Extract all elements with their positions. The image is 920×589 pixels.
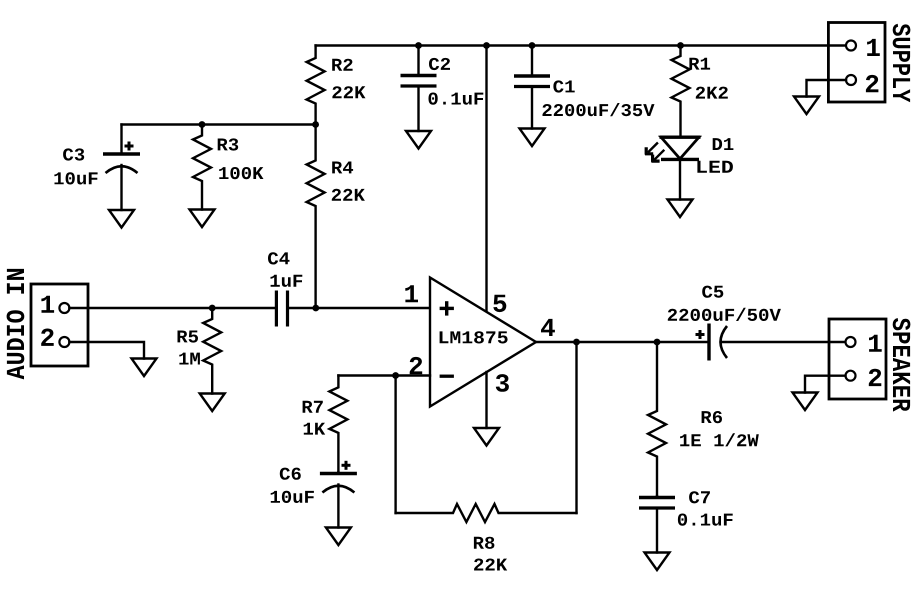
wire pin 2 net <box>338 374 430 376</box>
capacitor C7 <box>656 496 658 498</box>
label R7 <box>303 401 323 413</box>
ground C7 <box>645 553 670 571</box>
wire feedback up to output <box>575 342 577 513</box>
label C4 <box>268 252 290 264</box>
junction pin5 wire <box>483 42 490 49</box>
junction R2/R4/bias node <box>312 121 319 128</box>
junction output/R6 <box>654 339 661 346</box>
wire pin 3 to ground <box>485 372 487 428</box>
junction feedback node <box>392 372 399 379</box>
junction output/feedback <box>573 339 580 346</box>
pin number AUDIO 2 <box>41 329 54 346</box>
wire bias node <box>122 123 316 125</box>
op-amp U1 LM1875 <box>430 278 536 407</box>
pin number SPEAKER 2 <box>869 369 882 386</box>
label R5 <box>178 331 199 343</box>
pin number 1 <box>405 285 418 302</box>
junction R5 top <box>209 305 216 312</box>
value C1 2200uF/35V <box>543 103 655 116</box>
value R1 2K2 <box>696 87 728 99</box>
ground AUDIO pin2 <box>132 359 157 377</box>
ground C3 <box>109 210 134 228</box>
value R7 1K <box>304 423 326 435</box>
pin number SUPPLY 2 <box>866 75 879 92</box>
connector SUPPLY pin 1 circle <box>846 41 856 51</box>
connector AUDIO IN box <box>31 284 88 366</box>
resistor R7 <box>329 376 347 473</box>
label SPEAKER <box>893 318 911 412</box>
wire speaker pin2 to ground <box>805 376 846 393</box>
capacitor C6 <box>337 472 339 474</box>
ground SUPPLY pin2 <box>794 97 819 115</box>
capacitor C1 <box>531 46 533 77</box>
value R8 22K <box>474 559 507 571</box>
connector AUDIO IN pin 2 circle <box>59 337 69 347</box>
connector SPEAKER pin 1 circle <box>846 337 856 347</box>
pin number 3 <box>496 374 509 392</box>
resistor R4 <box>307 125 325 309</box>
connector SPEAKER box <box>829 319 886 399</box>
label LM1875 <box>440 331 508 343</box>
wire audio pin2 to ground <box>69 342 144 359</box>
LED D1 <box>661 137 699 159</box>
capacitor C4 <box>275 291 278 327</box>
junction R1 top <box>677 42 684 49</box>
wire C4 to opamp pin1 <box>288 307 431 309</box>
op-amp minus input mark <box>440 375 454 378</box>
wire D1 cathode to ground <box>679 160 681 200</box>
label R8 <box>474 537 495 549</box>
junction C2 top <box>415 42 422 49</box>
ground C2 <box>406 131 431 149</box>
label R6 <box>702 411 722 423</box>
junction R4 bottom <box>312 305 319 312</box>
resistor R5 <box>203 308 221 394</box>
LED D1 emission arrows <box>645 147 660 162</box>
label R4 <box>332 162 353 174</box>
value R4 22K <box>332 189 365 201</box>
ground R5 <box>200 394 225 412</box>
label R2 <box>332 59 352 71</box>
label R1 <box>689 58 710 70</box>
wire output <box>536 341 709 343</box>
label C2 <box>429 58 450 70</box>
label C5 <box>702 286 723 298</box>
value C7 0.1uF <box>678 514 733 526</box>
pin number AUDIO 1 <box>41 296 54 313</box>
wire pin 5 to V+ <box>485 46 487 313</box>
resistor R6 <box>648 342 666 496</box>
wire supply pin2 to ground <box>807 80 847 97</box>
pin number SUPPLY 1 <box>867 39 880 56</box>
pin number 4 <box>541 319 555 336</box>
value C6 10uF <box>271 491 314 503</box>
label AUDIO IN <box>7 269 25 380</box>
connector SUPPLY box <box>828 23 885 103</box>
label C7 <box>689 491 710 503</box>
capacitor C3 <box>120 125 122 155</box>
resistor R2 <box>307 46 325 125</box>
resistor R8 <box>396 504 577 522</box>
ground SPEAKER pin2 <box>793 393 818 411</box>
connector AUDIO IN pin 1 circle <box>59 303 69 313</box>
capacitor C5 <box>707 324 710 361</box>
pin number SPEAKER 1 <box>869 335 882 352</box>
pin number 2 <box>410 357 423 374</box>
op-amp plus input mark <box>440 301 454 315</box>
value C3 10uF <box>54 172 97 184</box>
value C4 1uF <box>271 275 303 287</box>
resistor R3 <box>193 125 211 210</box>
junction R3 top <box>199 121 206 128</box>
wire feedback down <box>394 376 396 514</box>
value C5 2200uF/50V <box>668 308 781 321</box>
ground opamp pin3 <box>474 428 499 446</box>
capacitor C2 <box>417 46 419 76</box>
label C3 <box>63 148 84 160</box>
wire C5 to speaker <box>722 341 846 343</box>
label R3 <box>218 138 239 150</box>
value R3 100K <box>219 167 263 179</box>
ground C6 <box>326 528 351 546</box>
label SUPPLY <box>893 24 911 103</box>
value R6 1E 1/2W <box>680 433 759 446</box>
wire V+ rail <box>316 44 847 46</box>
ground C1 <box>520 129 545 147</box>
label C6 <box>280 468 301 480</box>
value D1 LED <box>697 161 733 173</box>
ground R3 <box>190 210 215 228</box>
connector SPEAKER pin 2 circle <box>846 371 856 381</box>
label D1 <box>713 138 734 150</box>
value R5 1M <box>179 353 200 365</box>
connector SUPPLY pin 2 circle <box>846 75 856 85</box>
ground D1 <box>668 200 693 218</box>
label C1 <box>553 80 574 92</box>
value C2 0.1uF <box>429 93 484 105</box>
resistor R1 <box>672 46 690 137</box>
wire audio pin1 to C4 <box>69 307 276 309</box>
pin number 5 <box>493 295 506 312</box>
value R2 22K <box>332 86 365 98</box>
junction C1 top <box>529 42 536 49</box>
